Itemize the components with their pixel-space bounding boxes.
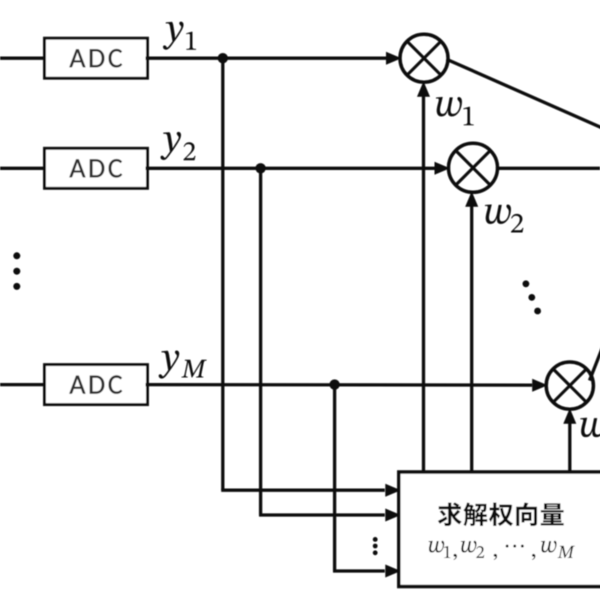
node junction row2 bbox=[255, 163, 265, 173]
diagonal ellipsis between multipliers bbox=[523, 280, 541, 314]
label weight box title bbox=[438, 502, 564, 526]
wire output multiplier2 to summer bbox=[497, 167, 600, 170]
arrowhead feed2 into weight box bbox=[385, 509, 401, 522]
ADC block row2 bbox=[45, 148, 148, 188]
node junction rowM bbox=[329, 379, 339, 389]
wire w2 vertical from weight box bbox=[470, 205, 473, 472]
wire w1 vertical from weight box bbox=[422, 95, 425, 472]
label w2 bbox=[485, 204, 523, 232]
node junction row1 bbox=[218, 53, 228, 63]
arrowhead into multiplier M bbox=[532, 379, 548, 392]
label y1 bbox=[163, 22, 196, 50]
arrowhead feed1 into weight box bbox=[385, 484, 401, 497]
wire tap rowM down to weight box bbox=[333, 385, 336, 571]
arrowhead into multiplier 1 bbox=[386, 52, 402, 65]
label weight vector w1 w2 wM bbox=[429, 541, 575, 560]
wire tap row1 down to weight box bbox=[221, 58, 224, 490]
ADC block row1 bbox=[45, 38, 148, 78]
multiplier U3 bbox=[546, 362, 593, 409]
wire y2 from ADC to multiplier 2 bbox=[146, 167, 435, 170]
wire yM from ADC to multiplier M bbox=[146, 383, 533, 387]
label y2 bbox=[161, 132, 196, 160]
wire wM vertical from weight box bbox=[568, 422, 571, 472]
wire input rowM bbox=[0, 383, 47, 386]
vertical ellipsis small near weight box bbox=[373, 537, 378, 555]
arrowhead feed3 into weight box bbox=[385, 565, 401, 578]
arrowhead wM into multiplierM bbox=[563, 408, 576, 424]
ADC block rowM bbox=[45, 365, 148, 405]
multiplier U1 bbox=[400, 34, 448, 82]
multiplier U2 bbox=[449, 143, 498, 192]
label wM bbox=[580, 418, 600, 445]
arrowhead w1 into multiplier1 bbox=[417, 81, 430, 97]
weight solver box bbox=[399, 472, 600, 587]
wire output multiplierM diagonal to summer bbox=[590, 346, 600, 381]
wire tap row2 down to weight box bbox=[259, 168, 262, 515]
vertical ellipsis left margin bbox=[13, 252, 20, 290]
label w1 bbox=[436, 97, 474, 125]
arrowhead into multiplier 2 bbox=[435, 162, 451, 175]
wire input row2 bbox=[0, 167, 47, 170]
wire y1 from ADC to multiplier 1 bbox=[146, 57, 387, 60]
arrowhead w2 into multiplier2 bbox=[465, 191, 478, 207]
wire output multiplier1 diagonal to summer bbox=[447, 59, 600, 129]
wire input row1 bbox=[0, 57, 47, 60]
label yM bbox=[159, 351, 207, 379]
